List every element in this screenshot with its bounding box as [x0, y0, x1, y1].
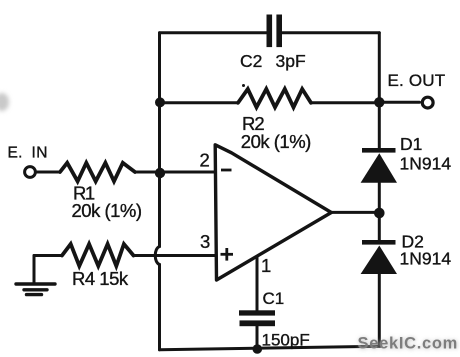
- svg-text:C1: C1: [263, 289, 285, 308]
- svg-text:IN: IN: [32, 145, 49, 162]
- svg-text:1N914: 1N914: [400, 249, 452, 269]
- svg-text:2: 2: [200, 150, 210, 171]
- svg-text:R4 15k: R4 15k: [72, 268, 129, 289]
- svg-text:E. OUT: E. OUT: [388, 71, 446, 90]
- svg-text:20k (1%): 20k (1%): [72, 200, 142, 221]
- svg-text:E.: E.: [8, 145, 23, 162]
- svg-text:20k (1%): 20k (1%): [241, 131, 311, 152]
- svg-text:3pF: 3pF: [276, 51, 306, 71]
- svg-text:D1: D1: [400, 134, 422, 154]
- svg-text:SeekIC.com: SeekIC.com: [358, 335, 459, 353]
- svg-text:C2: C2: [240, 51, 262, 71]
- svg-text:1: 1: [261, 255, 271, 276]
- svg-text:150pF: 150pF: [262, 330, 310, 349]
- svg-text:1N914: 1N914: [400, 154, 452, 174]
- svg-text:3: 3: [200, 231, 210, 252]
